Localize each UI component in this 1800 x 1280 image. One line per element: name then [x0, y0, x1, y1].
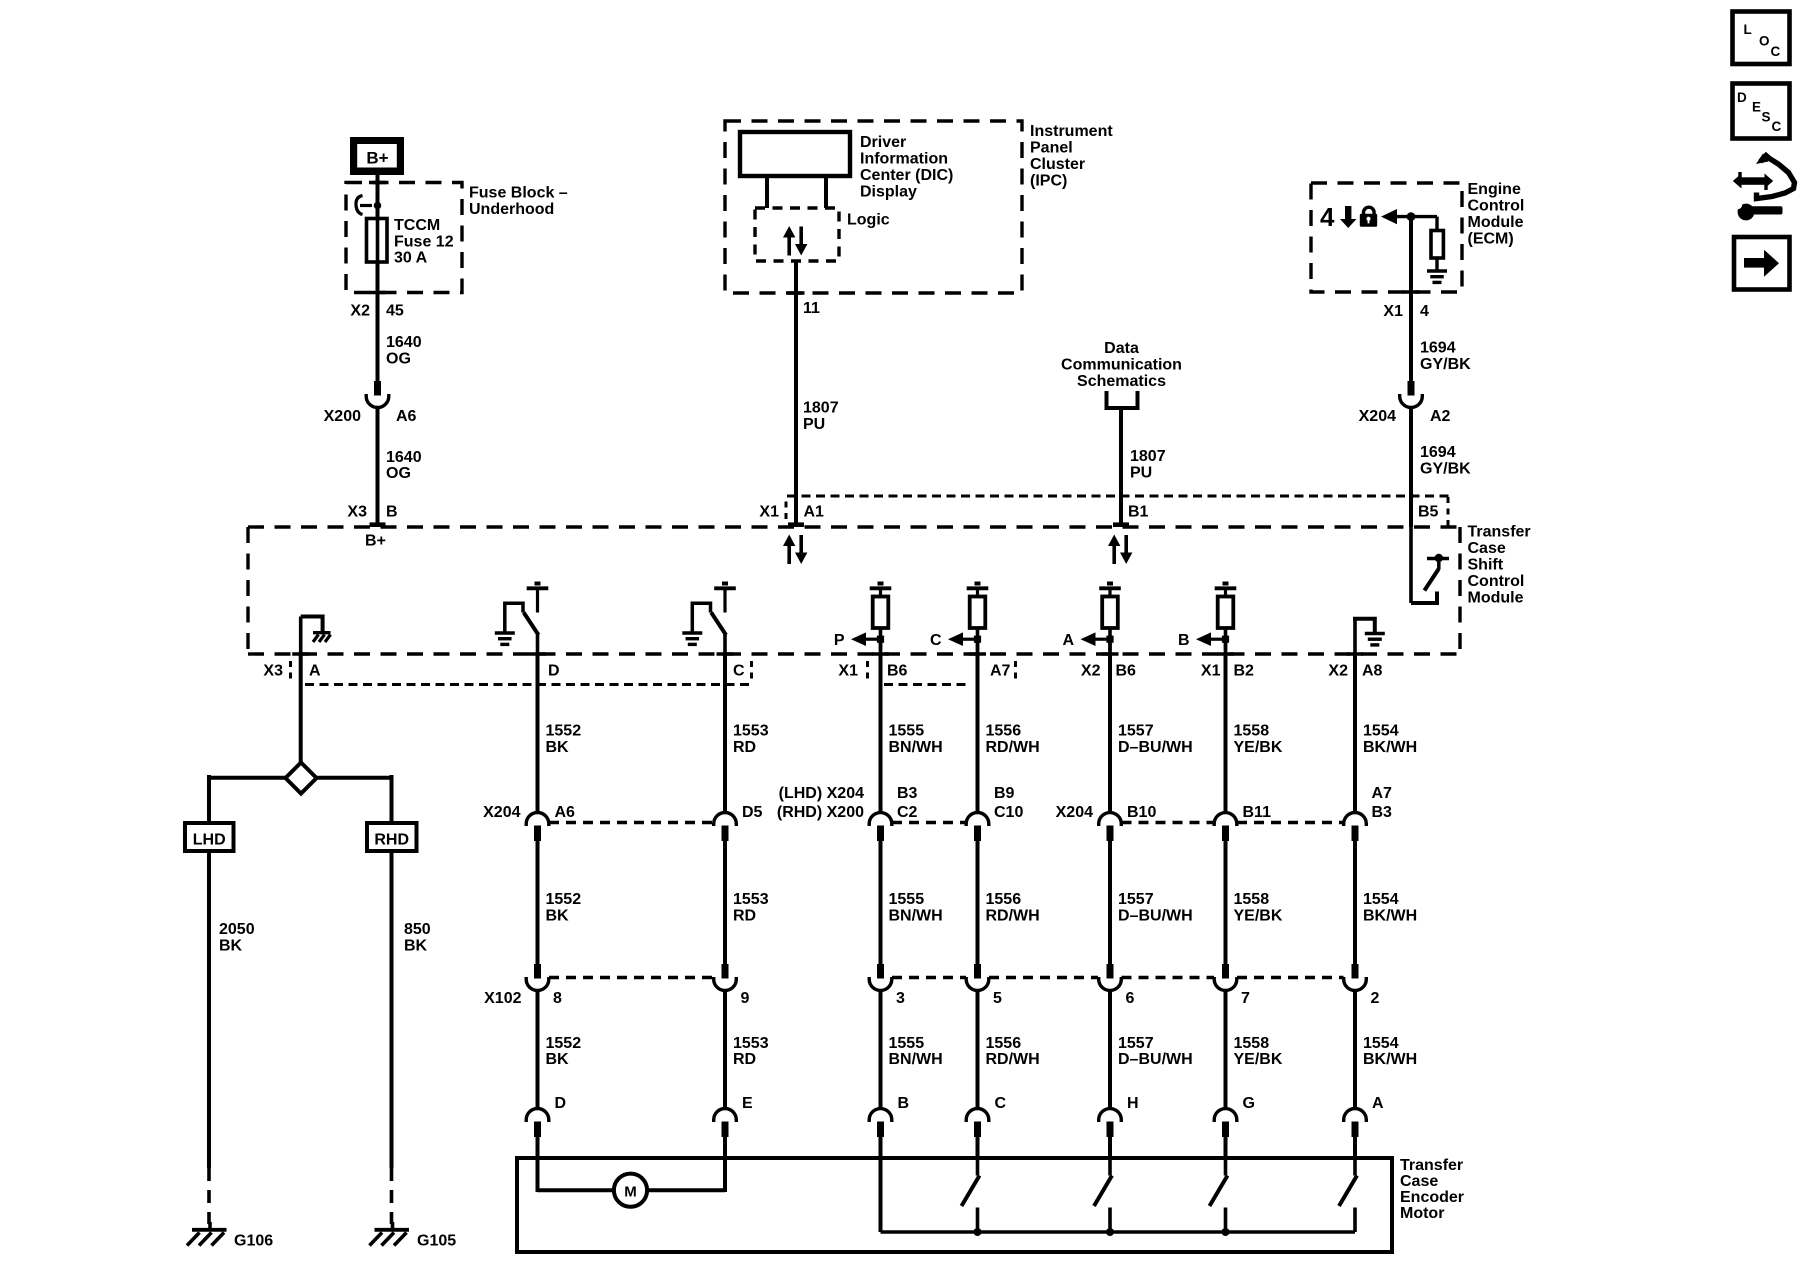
- edge dash at fuse box top: [369, 181, 386, 185]
- svg-text:X2: X2: [350, 303, 370, 320]
- svg-text:YE/BK: YE/BK: [1234, 908, 1283, 925]
- wire motor horizontal left: [538, 1188, 615, 1192]
- svg-text:Case: Case: [1400, 1173, 1438, 1190]
- splice diamond: [286, 763, 317, 794]
- svg-text:BK/WH: BK/WH: [1363, 908, 1417, 925]
- svg-text:1553: 1553: [733, 891, 769, 908]
- inline connector row1 at 1225.5: [1214, 813, 1237, 826]
- encoder switch A: [1353, 1160, 1357, 1176]
- wire circuit 1555 column seg1: [879, 655, 883, 813]
- svg-text:1554: 1554: [1363, 1035, 1399, 1052]
- svg-text:GY/BK: GY/BK: [1420, 356, 1471, 373]
- svg-text:M: M: [624, 1184, 637, 1201]
- svg-text:Schematics: Schematics: [1077, 373, 1166, 390]
- inline connector row2 at 1355: [1352, 964, 1359, 979]
- svg-text:A: A: [1062, 632, 1074, 649]
- wire circuit 1553 column seg3: [723, 991, 727, 1109]
- svg-text:4: 4: [1420, 303, 1429, 320]
- wire down to RHD: [390, 775, 394, 823]
- inline connector row3 at 1225.5: [1214, 1109, 1237, 1122]
- svg-text:2050: 2050: [219, 921, 255, 938]
- inline connector row1 at 1355: [1344, 813, 1367, 826]
- svg-text:Module: Module: [1468, 214, 1524, 231]
- logic dashed box: [755, 208, 839, 261]
- inline connector row3 at 537.5: [526, 1109, 549, 1122]
- svg-text:Control: Control: [1468, 573, 1525, 590]
- svg-text:1558: 1558: [1234, 723, 1270, 740]
- svg-text:B: B: [1178, 632, 1190, 649]
- encoder switch G: [1224, 1160, 1228, 1176]
- svg-text:BK/WH: BK/WH: [1363, 739, 1417, 756]
- engine control module dashed box: [1311, 183, 1462, 292]
- svg-text:RD: RD: [733, 1051, 756, 1068]
- svg-text:2: 2: [1371, 990, 1380, 1007]
- tick B5 separator: [1447, 497, 1450, 526]
- wire circuit 1557 column seg3: [1108, 991, 1112, 1109]
- svg-text:YE/BK: YE/BK: [1234, 1051, 1283, 1068]
- svg-text:X3: X3: [347, 504, 367, 521]
- icon DESC nav box: [1733, 84, 1790, 139]
- inline connector row3 at 1355: [1344, 1109, 1367, 1122]
- module internal ground (X2 A8): [1353, 617, 1357, 655]
- svg-text:Fuse 12: Fuse 12: [394, 234, 454, 251]
- svg-text:1807: 1807: [803, 400, 839, 417]
- junction dot bus C: [974, 1228, 982, 1236]
- inline connector row3 at 725: [714, 1109, 737, 1122]
- svg-text:B+: B+: [366, 149, 388, 168]
- terminal foot at module A1: [788, 522, 804, 527]
- svg-text:B: B: [898, 1095, 910, 1112]
- svg-text:A: A: [309, 663, 321, 680]
- wire ECM X1-4 down: [1409, 217, 1413, 381]
- svg-text:(LHD) X204: (LHD) X204: [779, 785, 864, 802]
- transfer case encoder motor box: [517, 1158, 1392, 1252]
- edge dash module bottom x=880.5: [872, 652, 889, 656]
- icon double-arrow with curved hook: [1740, 177, 1767, 185]
- svg-text:A2: A2: [1430, 408, 1451, 425]
- svg-text:G106: G106: [234, 1233, 273, 1250]
- svg-text:G105: G105: [417, 1233, 456, 1250]
- svg-text:6: 6: [1126, 990, 1135, 1007]
- svg-text:C: C: [930, 632, 942, 649]
- svg-text:1552: 1552: [546, 891, 582, 908]
- wire H into switch: [1108, 1136, 1112, 1160]
- harness dashed link B10-B11-B3: [1122, 821, 1215, 824]
- svg-text:1557: 1557: [1118, 1035, 1154, 1052]
- inline connector row1 at 1110: [1099, 813, 1122, 826]
- resistor encoder sense B: [1223, 582, 1229, 586]
- fuse TCCM Fuse 12 30A: [367, 219, 388, 263]
- wire circuit 1552 column seg1: [536, 655, 540, 813]
- svg-text:A7: A7: [1372, 785, 1393, 802]
- svg-text:RD/WH: RD/WH: [986, 908, 1040, 925]
- svg-text:45: 45: [386, 303, 404, 320]
- svg-text:X1: X1: [838, 663, 858, 680]
- svg-text:(ECM): (ECM): [1468, 231, 1514, 248]
- svg-text:C10: C10: [994, 804, 1023, 821]
- svg-text:B9: B9: [994, 785, 1015, 802]
- inline connector row2 at 977.5: [974, 964, 981, 979]
- svg-text:RD/WH: RD/WH: [986, 1051, 1040, 1068]
- edge dash module bottom x=537.5: [529, 652, 546, 656]
- svg-text:8: 8: [553, 990, 562, 1007]
- svg-text:(IPC): (IPC): [1030, 173, 1067, 190]
- svg-text:1556: 1556: [986, 723, 1022, 740]
- wire circuit 1558 column seg1: [1224, 655, 1228, 813]
- svg-text:1553: 1553: [733, 723, 769, 740]
- wire circuit 1556 column seg1: [976, 655, 980, 813]
- svg-text:Instrument: Instrument: [1030, 123, 1113, 140]
- wire circuit 1555 column seg2: [879, 841, 883, 964]
- wire DIC right leg: [824, 176, 828, 208]
- svg-text:1555: 1555: [889, 723, 925, 740]
- fuse clip hook: [356, 196, 363, 215]
- ECM left arrowhead: [1381, 209, 1397, 224]
- svg-text:1553: 1553: [733, 1035, 769, 1052]
- inline connector row3 at 1110: [1099, 1109, 1122, 1122]
- svg-text:D–BU/WH: D–BU/WH: [1118, 1051, 1193, 1068]
- wire RHD to G105: [390, 851, 394, 1168]
- svg-text:9: 9: [741, 990, 750, 1007]
- resistor encoder sense P: [878, 582, 884, 586]
- svg-text:1554: 1554: [1363, 723, 1399, 740]
- svg-text:B2: B2: [1234, 663, 1255, 680]
- inline connector row3 at 977.5: [966, 1109, 989, 1122]
- svg-text:B3: B3: [1372, 804, 1393, 821]
- svg-text:PU: PU: [1130, 465, 1152, 482]
- svg-text:RD: RD: [733, 739, 756, 756]
- svg-text:(RHD) X200: (RHD) X200: [777, 804, 864, 821]
- wire ECM resistor drop: [1435, 217, 1438, 231]
- svg-text:1555: 1555: [889, 891, 925, 908]
- data comm off-page bracket: [1107, 391, 1138, 408]
- wire circuit 1554 column seg3: [1353, 991, 1357, 1109]
- svg-text:B11: B11: [1243, 804, 1272, 821]
- svg-text:P: P: [834, 632, 845, 649]
- svg-text:Fuse Block –: Fuse Block –: [469, 185, 568, 202]
- svg-text:BN/WH: BN/WH: [889, 1051, 943, 1068]
- wire circuit 1558 column seg3: [1224, 991, 1228, 1109]
- inline connector row2 at 1110: [1107, 964, 1114, 979]
- svg-text:A6: A6: [555, 804, 576, 821]
- svg-text:Transfer: Transfer: [1468, 524, 1531, 541]
- ECM lock icon: [1364, 207, 1375, 215]
- wire C into switch: [976, 1136, 980, 1160]
- svg-text:D: D: [1737, 90, 1747, 105]
- svg-text:E: E: [1752, 100, 1761, 115]
- svg-text:H: H: [1127, 1095, 1139, 1112]
- svg-text:B+: B+: [365, 533, 386, 550]
- svg-text:A1: A1: [804, 504, 825, 521]
- svg-text:Logic: Logic: [847, 212, 890, 229]
- encoder common bus: [881, 1230, 1356, 1234]
- svg-text:E: E: [742, 1095, 753, 1112]
- svg-text:X204: X204: [1056, 804, 1093, 821]
- svg-text:Shift: Shift: [1468, 557, 1504, 574]
- svg-text:X3: X3: [263, 663, 283, 680]
- wire ECM internal horizontal: [1396, 215, 1437, 218]
- wire B+ to fuse: [376, 175, 380, 219]
- svg-text:BN/WH: BN/WH: [889, 908, 943, 925]
- svg-text:B6: B6: [1116, 663, 1137, 680]
- wire circuit 1553 column seg1: [723, 655, 727, 813]
- wire circuit 1552 column seg3: [536, 991, 540, 1109]
- DIC display rect: [740, 132, 850, 176]
- switch transfer case shift (B5): [1427, 557, 1449, 561]
- svg-text:Motor: Motor: [1400, 1205, 1444, 1222]
- harness dashed link X102 3-5-6-7-2: [892, 976, 966, 979]
- svg-text:B5: B5: [1418, 504, 1439, 521]
- wire LHD to G106: [207, 851, 211, 1168]
- wire data comm to module B1: [1119, 408, 1123, 523]
- connector band X3..C dotted: [305, 683, 750, 686]
- svg-text:B6: B6: [887, 663, 908, 680]
- edge dash module bottom x=725: [717, 652, 734, 656]
- svg-text:C: C: [1772, 119, 1782, 134]
- wire circuit 1554 column seg1: [1353, 655, 1357, 813]
- svg-text:X2: X2: [1328, 663, 1348, 680]
- svg-text:1640: 1640: [386, 449, 422, 466]
- svg-text:1552: 1552: [546, 1035, 582, 1052]
- wire diamond right: [317, 776, 392, 780]
- svg-text:1694: 1694: [1420, 340, 1456, 357]
- svg-text:1556: 1556: [986, 891, 1022, 908]
- ground G105: [391, 1222, 395, 1228]
- connector band X1 B6..A7 dotted: [884, 683, 971, 686]
- LHD box: [185, 823, 234, 851]
- resistor ECM pull-up: [1431, 231, 1443, 259]
- svg-text:3: 3: [896, 990, 905, 1007]
- inline connector X204 A2: [1408, 381, 1415, 396]
- wire A to splice diamond: [299, 655, 303, 763]
- logic up-down arrows: [787, 237, 791, 256]
- svg-text:D: D: [548, 663, 560, 680]
- wire A into switch: [1353, 1136, 1357, 1160]
- svg-text:BK: BK: [219, 938, 243, 955]
- svg-text:Panel: Panel: [1030, 140, 1073, 157]
- svg-text:Encoder: Encoder: [1400, 1189, 1464, 1206]
- svg-text:D–BU/WH: D–BU/WH: [1118, 908, 1193, 925]
- wire D into motor: [536, 1136, 540, 1192]
- edge dash module bottom x=300.7: [292, 652, 309, 656]
- wire resistor to ground: [1435, 258, 1438, 271]
- svg-text:1694: 1694: [1420, 444, 1456, 461]
- fuse block underhood dashed box: [346, 183, 462, 293]
- svg-text:Transfer: Transfer: [1400, 1157, 1463, 1174]
- module A1 up-down arrows: [787, 545, 791, 564]
- resistor encoder sense C: [975, 582, 981, 586]
- inline connector row1 at 880.5: [869, 813, 892, 826]
- inline connector X200 A6: [374, 381, 381, 396]
- wire circuit 1555 column seg3: [879, 991, 883, 1109]
- harness dashed link C2-C10: [892, 821, 966, 824]
- wire circuit 1556 column seg3: [976, 991, 980, 1109]
- svg-text:Display: Display: [860, 184, 917, 201]
- svg-text:A7: A7: [990, 663, 1011, 680]
- svg-text:X2: X2: [1081, 663, 1101, 680]
- module internal chassis ground (X3 A): [299, 617, 303, 656]
- svg-text:Information: Information: [860, 151, 948, 168]
- edge dash at IPC box bottom: [788, 291, 805, 295]
- svg-text:D5: D5: [742, 804, 763, 821]
- svg-text:BK: BK: [546, 908, 570, 925]
- switch motor drive C: [722, 582, 728, 586]
- module top connector dotted band: [787, 495, 1449, 498]
- svg-text:A6: A6: [396, 408, 417, 425]
- wire logic to module A1: [794, 261, 798, 523]
- encoder switch H: [1108, 1160, 1112, 1176]
- svg-text:C: C: [733, 663, 745, 680]
- svg-text:30 A: 30 A: [394, 250, 428, 267]
- svg-text:X1: X1: [1383, 303, 1403, 320]
- svg-text:RHD: RHD: [374, 832, 409, 849]
- wire circuit 1556 column seg2: [976, 841, 980, 964]
- inline connector row1 at 537.5: [526, 813, 549, 826]
- junction dot bus H: [1106, 1228, 1114, 1236]
- svg-text:Control: Control: [1468, 198, 1525, 215]
- svg-text:D–BU/WH: D–BU/WH: [1118, 739, 1193, 756]
- battery feed terminal B+ box: [350, 137, 404, 175]
- svg-text:X102: X102: [484, 990, 521, 1007]
- svg-text:7: 7: [1241, 990, 1250, 1007]
- harness dashed link X102 8-9: [549, 976, 713, 979]
- svg-text:Data: Data: [1104, 340, 1139, 357]
- instrument panel cluster dashed box: [725, 121, 1022, 293]
- svg-text:1807: 1807: [1130, 448, 1166, 465]
- svg-text:L: L: [1744, 22, 1752, 37]
- wire motor horizontal right: [647, 1188, 725, 1192]
- svg-text:BK: BK: [404, 938, 428, 955]
- svg-text:850: 850: [404, 921, 431, 938]
- svg-text:D: D: [555, 1095, 567, 1112]
- svg-text:RD/WH: RD/WH: [986, 739, 1040, 756]
- svg-text:B10: B10: [1127, 804, 1156, 821]
- svg-text:Center (DIC): Center (DIC): [860, 167, 953, 184]
- svg-text:BK: BK: [546, 739, 570, 756]
- svg-text:RD: RD: [733, 908, 756, 925]
- svg-text:TCCM: TCCM: [394, 217, 440, 234]
- wire circuit 1557 column seg2: [1108, 841, 1112, 964]
- icon LOC nav box: [1733, 12, 1790, 65]
- svg-text:B3: B3: [897, 785, 918, 802]
- svg-text:X1: X1: [1201, 663, 1221, 680]
- svg-text:5: 5: [993, 990, 1002, 1007]
- svg-text:BK: BK: [546, 1051, 570, 1068]
- svg-text:1558: 1558: [1234, 891, 1270, 908]
- svg-text:OG: OG: [386, 351, 411, 368]
- edge dash at fuse box bottom: [369, 291, 386, 295]
- svg-text:OG: OG: [386, 465, 411, 482]
- svg-text:Cluster: Cluster: [1030, 156, 1085, 173]
- svg-text:B1: B1: [1128, 504, 1149, 521]
- wire circuit 1553 column seg2: [723, 841, 727, 964]
- edge dash module bottom x=1355: [1347, 652, 1364, 656]
- wire circuit 1557 column seg1: [1108, 655, 1112, 813]
- svg-text:PU: PU: [803, 416, 825, 433]
- svg-text:1555: 1555: [889, 1035, 925, 1052]
- svg-text:S: S: [1762, 110, 1771, 125]
- inline connector row2 at 1225.5: [1222, 964, 1229, 979]
- harness dashed link A6-D5: [549, 821, 713, 824]
- svg-text:G: G: [1243, 1095, 1255, 1112]
- terminal foot at module B1: [1113, 522, 1129, 527]
- icon forward-arrow nav box: [1734, 237, 1790, 290]
- RHD box: [367, 823, 417, 851]
- wire fuse to X200: [376, 262, 380, 381]
- inline connector row2 at 880.5: [877, 964, 884, 979]
- wire X204 to module B5: [1409, 408, 1413, 528]
- svg-text:1556: 1556: [986, 1035, 1022, 1052]
- wire circuit 1558 column seg2: [1224, 841, 1228, 964]
- junction dot ECM: [1407, 212, 1416, 221]
- svg-text:LHD: LHD: [193, 832, 226, 849]
- svg-text:B: B: [386, 504, 398, 521]
- ground ECM internal: [1427, 269, 1447, 272]
- wire DIC left leg: [765, 176, 769, 208]
- inline connector row1 at 725: [714, 813, 737, 826]
- svg-text:BK/WH: BK/WH: [1363, 1051, 1417, 1068]
- svg-text:BN/WH: BN/WH: [889, 739, 943, 756]
- svg-text:4: 4: [1320, 202, 1335, 232]
- wire E into motor: [723, 1136, 727, 1192]
- svg-text:Driver: Driver: [860, 134, 906, 151]
- svg-text:1557: 1557: [1118, 723, 1154, 740]
- wire G into switch: [1224, 1136, 1228, 1160]
- svg-text:O: O: [1759, 34, 1770, 49]
- wire down to LHD: [207, 775, 211, 823]
- svg-text:Communication: Communication: [1061, 357, 1182, 374]
- svg-text:YE/BK: YE/BK: [1234, 739, 1283, 756]
- svg-text:A8: A8: [1362, 663, 1383, 680]
- svg-text:X204: X204: [483, 804, 520, 821]
- switch motor drive D: [535, 582, 541, 586]
- wire circuit 1552 column seg2: [536, 841, 540, 964]
- wire circuit 1554 column seg2: [1353, 841, 1357, 964]
- svg-text:1640: 1640: [386, 334, 422, 351]
- transfer case shift control module dashed box: [248, 525, 1460, 528]
- svg-text:GY/BK: GY/BK: [1420, 461, 1471, 478]
- svg-text:Underhood: Underhood: [469, 201, 554, 218]
- inline connector row3 at 880.5: [869, 1109, 892, 1122]
- ECM down arrow icon: [1345, 206, 1351, 220]
- svg-text:X204: X204: [1359, 408, 1396, 425]
- svg-text:1554: 1554: [1363, 891, 1399, 908]
- edge dash module bottom x=977.5: [969, 652, 986, 656]
- svg-text:C2: C2: [897, 804, 918, 821]
- wire B into motor bus: [879, 1136, 883, 1232]
- inline connector row1 at 977.5: [966, 813, 989, 826]
- terminal foot at module B+: [370, 522, 386, 527]
- svg-text:X200: X200: [324, 408, 361, 425]
- svg-text:Engine: Engine: [1468, 181, 1521, 198]
- edge dash at ECM box bottom: [1403, 290, 1420, 294]
- module B1 up-down arrows: [1112, 545, 1116, 564]
- junction dot bus G: [1222, 1228, 1230, 1236]
- svg-text:C: C: [995, 1095, 1007, 1112]
- svg-text:X1: X1: [759, 504, 779, 521]
- svg-text:11: 11: [803, 300, 820, 317]
- edge dash module bottom x=1110: [1102, 652, 1119, 656]
- resistor encoder sense A: [1107, 582, 1113, 586]
- encoder switch C: [976, 1160, 980, 1176]
- svg-text:Case: Case: [1468, 540, 1506, 557]
- motor M: [614, 1174, 647, 1207]
- svg-text:A: A: [1372, 1095, 1384, 1112]
- tick X1-A1 separator: [785, 502, 788, 523]
- inline connector row2 at 537.5: [534, 964, 541, 979]
- icon wrench: [1738, 204, 1755, 221]
- edge dash module bottom x=1225.5: [1217, 652, 1234, 656]
